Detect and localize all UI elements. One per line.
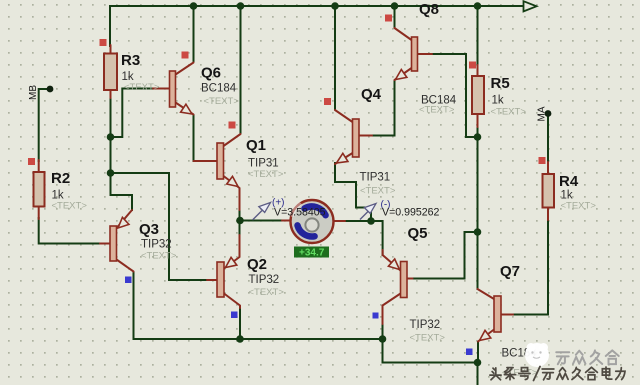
transistor Q8 [393, 28, 432, 83]
node junction on rail at Q4 collector [331, 2, 339, 10]
node center junction Q1/Q2/motor [236, 217, 244, 225]
label Q4 property TEXT [360, 186, 396, 197]
svg-text:<TEXT>: <TEXT> [248, 169, 284, 180]
wire Q8 collector to rail [394, 6, 396, 27]
svg-text:V=3.58405: V=3.58405 [274, 207, 326, 219]
wire Q8 base to node D [431, 54, 477, 137]
svg-text:<TEXT>: <TEXT> [561, 201, 597, 212]
node MB terminal dot [47, 86, 54, 93]
node MA terminal dot [545, 110, 552, 117]
motor M1 body [291, 200, 334, 243]
svg-text:TIP31: TIP31 [248, 158, 279, 170]
label Q1 refdes [246, 137, 266, 154]
label Q2 property TEXT [249, 287, 285, 298]
marker red square near Q6 [182, 52, 189, 59]
label Q5 refdes [408, 225, 428, 242]
wire node B branch to Q2 base [111, 173, 209, 280]
label R3 value 1k [122, 71, 134, 83]
probe minus voltage probe [360, 204, 376, 220]
node junction Q7 emitter on bottom rail [474, 359, 482, 367]
label R3 refdes [121, 52, 140, 69]
label probe plus sign [272, 198, 285, 209]
svg-text:Q1: Q1 [246, 137, 266, 154]
node B junction Q3 / Q2 base branch [107, 169, 115, 177]
svg-text:V=0.995262: V=0.995262 [382, 207, 440, 219]
node junction on rail at Q1 collector [237, 2, 245, 10]
wire Q2 collector to bottom rail [239, 307, 241, 339]
svg-text:R3: R3 [121, 52, 140, 69]
svg-text:BC184: BC184 [201, 83, 237, 95]
svg-text:TIP32: TIP32 [141, 239, 172, 251]
watermark text line 2 [490, 367, 625, 381]
marker red square near R2 [28, 158, 35, 165]
label Q5 property TEXT [410, 333, 446, 344]
node junction Q2 collector on bottom rail [236, 335, 244, 343]
svg-text:Q8: Q8 [419, 1, 439, 18]
transistor Q4 [334, 110, 372, 167]
label Q3 property TEXT [141, 251, 177, 262]
label probe minus sign [381, 200, 391, 211]
wire Q8 emitter to Q4 base [371, 81, 395, 136]
marker red square near Q4 [324, 98, 331, 105]
wire Q6 collector to rail [193, 6, 195, 61]
svg-text:<TEXT>: <TEXT> [249, 287, 285, 298]
marker red square near Q1 [229, 122, 236, 129]
resistor R5 [472, 65, 484, 127]
watermark logo circle [525, 343, 549, 367]
label Q7 value BC184 [502, 348, 538, 360]
node top rail arrow terminal [524, 1, 537, 11]
svg-text:TIP32: TIP32 [410, 319, 441, 331]
svg-text:R5: R5 [491, 75, 510, 92]
marker red square near R3 [100, 39, 107, 46]
transistor Q5 [383, 250, 413, 324]
label R2 value 1k [52, 190, 64, 202]
transistor Q2 [207, 235, 240, 308]
label R5 value 1k [492, 95, 504, 107]
label Q1 value TIP31 [248, 158, 279, 170]
resistor R4 [543, 162, 555, 220]
svg-text:<TEXT>: <TEXT> [141, 251, 177, 262]
svg-text:R4: R4 [559, 173, 579, 190]
wire Q2 emitter from center node [239, 221, 241, 237]
label MB terminal [28, 85, 39, 100]
wire Q5 collector to bottom rail [382, 323, 384, 339]
svg-text:Q6: Q6 [201, 65, 221, 82]
label Q8 property TEXT [419, 105, 455, 116]
node junction on rail at Q8 collector [391, 2, 399, 10]
wire node E branch to Q5 base [412, 232, 478, 279]
node D junction R5 bottom / Q8 base [474, 133, 482, 141]
transistor Q1 [194, 134, 241, 210]
node junction Q5 collector on bottom rail [379, 335, 387, 343]
label R4 value 1k [561, 190, 573, 202]
svg-text:<TEXT>: <TEXT> [360, 186, 396, 197]
label Q7 refdes [500, 263, 520, 280]
resistor R3 [104, 45, 117, 98]
label Q5 value TIP32 [410, 319, 441, 331]
motor readout display +34.7 [294, 247, 329, 259]
label Q3 value TIP32 [141, 239, 172, 251]
label Q4 refdes [361, 86, 382, 103]
svg-text:Q7: Q7 [500, 263, 520, 280]
label probe minus voltage value [382, 207, 440, 219]
wire top supply rail [110, 6, 523, 46]
wire node E to Q7 collector [477, 232, 479, 289]
node C junction motor right / Q4 / Q5 [367, 217, 375, 225]
label R5 property TEXT [491, 107, 527, 118]
transistor Q7 [477, 289, 513, 344]
wire motor right terminal to node C [344, 220, 371, 222]
svg-text:<TEXT>: <TEXT> [124, 82, 160, 93]
label Q1 property TEXT [248, 169, 284, 180]
svg-text:<TEXT>: <TEXT> [52, 201, 88, 212]
label Q8 refdes [419, 1, 439, 18]
node A junction R3 bottom / Q6 base [107, 133, 115, 141]
label probe plus voltage value [274, 207, 326, 219]
wire Q4 collector to rail [334, 6, 336, 109]
marker red square near R4 [539, 157, 546, 164]
transistor Q6 [153, 63, 195, 118]
wire R2 bottom to Q3 base [39, 218, 101, 244]
label Q2 value TIP32 [249, 274, 280, 286]
svg-text:TIP32: TIP32 [249, 274, 280, 286]
marker blue square near Q2 [231, 312, 238, 319]
wire node A branch to Q6 base [111, 89, 154, 138]
svg-text:+34.7: +34.7 [299, 248, 325, 259]
wire MB terminal to R2 top [39, 89, 50, 161]
wire R5 bottom trunk node D to node E [477, 126, 479, 232]
transistor Q3 [100, 210, 134, 272]
wire center node to motor left terminal [240, 220, 282, 222]
label Q8 value BC184 [421, 95, 457, 107]
probe plus voltage probe [253, 203, 271, 221]
label Q2 refdes [247, 256, 267, 273]
label Q6 refdes [201, 65, 221, 82]
svg-text:1k: 1k [492, 95, 504, 107]
wire R5 top to rail [477, 6, 479, 66]
label R3 property TEXT [124, 82, 160, 93]
node junction on rail at Q6 collector [190, 2, 198, 10]
label Q4 value TIP31 [360, 172, 391, 184]
label MA terminal [537, 106, 548, 121]
wire Q1 emitter to center node [239, 209, 241, 221]
node E junction Q5 base / Q7 collector [474, 228, 482, 236]
svg-text:TIP31: TIP31 [360, 172, 391, 184]
svg-text:Q2: Q2 [247, 256, 267, 273]
svg-text:<TEXT>: <TEXT> [204, 96, 240, 107]
wire Q4 emitter staircase to node C [335, 163, 371, 221]
label Q6 value BC184 [201, 83, 237, 95]
svg-text:Q3: Q3 [139, 221, 159, 238]
wire R4 bottom to Q7 base [512, 219, 548, 315]
wire bottom rail [134, 272, 478, 385]
svg-text:<TEXT>: <TEXT> [491, 107, 527, 118]
svg-text:<TEXT>: <TEXT> [419, 105, 455, 116]
label R4 refdes [559, 173, 579, 190]
svg-text:<TEXT>: <TEXT> [410, 333, 446, 344]
svg-text:R2: R2 [51, 170, 70, 187]
svg-text:MB: MB [28, 85, 39, 100]
label Q7 property TEXT [502, 368, 538, 379]
label Q3 refdes [139, 221, 159, 238]
label Q6 property TEXT [204, 96, 240, 107]
svg-text:Q4: Q4 [361, 86, 382, 103]
wire node C to Q5 emitter [371, 221, 383, 255]
marker blue square near Q5 [373, 313, 379, 319]
label R5 refdes [491, 75, 510, 92]
wire MA terminal to R4 top [547, 114, 549, 164]
wire Q7 emitter to bottom rail [477, 342, 479, 363]
motor M1 pin stubs [282, 220, 345, 223]
svg-text:MA: MA [537, 106, 548, 121]
resistor R2 [34, 160, 45, 219]
marker blue square near Q7 [466, 349, 473, 356]
svg-text:Q5: Q5 [408, 225, 428, 242]
label R4 property TEXT [561, 201, 597, 212]
wire Q1 collector to rail [240, 6, 242, 133]
wire R3 bottom trunk down to node B and Q3 emitter bend [111, 97, 133, 210]
marker blue square near Q3 [125, 277, 132, 284]
node junction on rail at R5 [474, 2, 482, 10]
wire Q6 emitter to Q1 base [193, 115, 195, 161]
watermark text line 1 [556, 350, 619, 364]
marker red square near R5 [469, 62, 476, 69]
label R2 property TEXT [52, 201, 88, 212]
label R2 refdes [51, 170, 70, 187]
marker red square near Q8 [385, 15, 392, 22]
